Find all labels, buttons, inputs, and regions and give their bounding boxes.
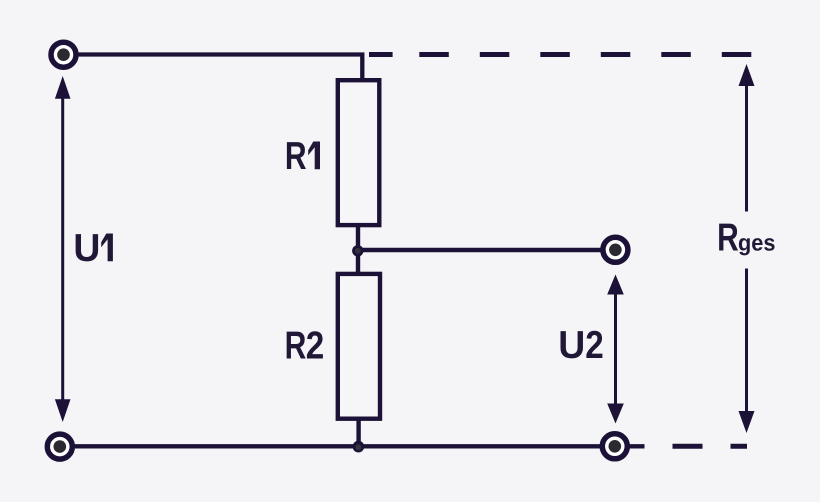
arrow U1 (input voltage, double headed) — [55, 76, 71, 422]
resistor R2 — [338, 274, 380, 419]
arrow Rges (total resistance span, double headed with gap for label) — [739, 64, 755, 433]
node: bottom junction — [353, 441, 365, 453]
wire: bottom rail — [72, 444, 645, 448]
label Rges — [717, 216, 775, 259]
svg-text:2: 2 — [585, 324, 604, 367]
label R2 — [285, 325, 325, 368]
svg-text:U: U — [73, 227, 100, 270]
label R1 — [285, 135, 320, 178]
wire: top horizontal from input terminal to R1 top lead — [76, 55, 362, 83]
resistor R1 — [338, 80, 380, 225]
svg-text:2: 2 — [306, 325, 325, 368]
label U2 — [558, 324, 604, 367]
arrow U2 (output voltage, double headed) — [607, 275, 624, 424]
node: junction between R1 and R2 — [352, 245, 363, 256]
terminal: bottom-right output — [602, 434, 627, 459]
svg-text:R: R — [285, 325, 307, 368]
svg-text:ges: ges — [738, 229, 776, 255]
wire: lead between R1 and R2 — [356, 225, 360, 274]
terminal: bottom-left input — [47, 434, 72, 459]
label U1 — [73, 227, 113, 270]
wire: middle tap from divider node to output terminal — [358, 248, 603, 252]
svg-text:U: U — [558, 324, 585, 367]
wire: lead from R2 to bottom rail — [356, 419, 360, 447]
svg-text:R: R — [717, 216, 739, 259]
terminal: middle-right output — [603, 237, 628, 262]
wire: bottom dashed extension toward Rges — [673, 444, 748, 449]
svg-text:R: R — [285, 135, 307, 178]
terminal: top-left input — [51, 42, 76, 67]
wire: top dashed extension toward Rges — [369, 52, 752, 57]
